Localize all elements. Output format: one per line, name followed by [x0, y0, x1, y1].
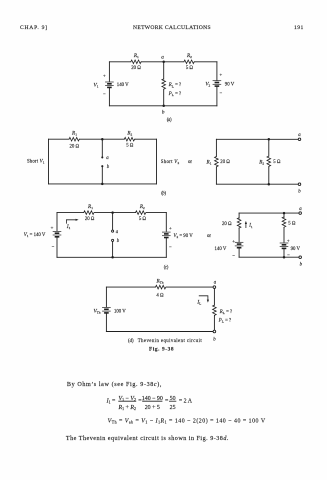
- wire: (c-right) right branch top: [283, 213, 285, 217]
- svg-text:a: a: [298, 133, 301, 138]
- wire: (b) bottom wire: [49, 183, 157, 185]
- resistor RTh (d) 4 ohm: [156, 285, 167, 289]
- wire: (a) left edge lower: [108, 88, 110, 106]
- svg-text:5 Ω: 5 Ω: [288, 222, 296, 227]
- svg-text:RL = ?: RL = ?: [168, 83, 181, 88]
- svg-text:+: +: [287, 240, 290, 245]
- svg-text:or: or: [207, 234, 211, 239]
- svg-text:+: +: [169, 227, 172, 232]
- wire: (d) left edge upper: [105, 287, 107, 307]
- wire: (c-right) bottom wire: [239, 256, 299, 258]
- wire: (c-right) left branch top: [238, 213, 240, 218]
- wire: (b) top segment 2: [80, 138, 124, 140]
- current arrow I1 (c): [66, 220, 76, 224]
- wire: (a) middle branch lower: [163, 89, 165, 105]
- svg-text:Short V1: Short V1: [27, 160, 45, 165]
- svg-text:+: +: [220, 73, 223, 78]
- resistor R2 (b-right) 5 ohm vertical: [267, 156, 271, 167]
- wire: (a) top-right segment: [195, 61, 217, 63]
- svg-text:20 + 5: 20 + 5: [145, 405, 160, 411]
- wire: (d) top segment 1: [106, 286, 155, 288]
- svg-text:−: −: [287, 254, 290, 259]
- wire: (c) right edge lower: [165, 238, 167, 257]
- wire: (c-right) right branch bottom: [283, 249, 285, 257]
- battery 90 V (c-right): [280, 243, 289, 248]
- svg-text:b: b: [117, 239, 120, 244]
- wire: (d) right edge lower: [213, 316, 215, 330]
- svg-text:100 V: 100 V: [114, 310, 126, 315]
- svg-text:R1 + R2: R1 + R2: [117, 405, 135, 411]
- svg-text:a: a: [214, 281, 217, 286]
- wire: (b-right) left edge lower: [215, 168, 217, 185]
- wire: (b) right edge (shorted V2): [156, 139, 158, 184]
- svg-text:Thevenin equivalent circuit: Thevenin equivalent circuit: [138, 339, 203, 344]
- svg-text:a: a: [106, 156, 109, 161]
- node b open circle (d): [213, 330, 216, 333]
- svg-text:I1: I1: [248, 224, 253, 229]
- terminal a open circle (c): [112, 230, 114, 232]
- wire: (c) bottom wire: [57, 256, 166, 258]
- resistor R1 (a) 20 ohm: [131, 60, 142, 64]
- svg-text:I1 =: I1 =: [106, 398, 116, 404]
- wire: (a) top-middle segment: [142, 61, 184, 63]
- resistor RL (d) load vertical: [213, 305, 217, 316]
- svg-text:R2: R2: [258, 159, 264, 165]
- wire: (b) middle stub upper: [101, 139, 103, 157]
- resistor R1 (b-right) 20 ohm vertical: [215, 157, 219, 168]
- wire: (c-right) right branch middle: [283, 227, 285, 242]
- wire: (a) top-left segment: [109, 61, 130, 63]
- wire: (c-right) left branch middle: [238, 228, 240, 241]
- svg-text:V1: V1: [94, 82, 99, 88]
- svg-text:R1: R1: [206, 159, 212, 165]
- svg-text:VTh = Vab = V1 − I1R1 = 140 −: VTh = Vab = V1 − I1R1 = 140 − 2(20) = 14…: [108, 417, 266, 424]
- wire: (c-right) top wire: [239, 212, 299, 214]
- wire: (c) right edge upper: [165, 213, 167, 232]
- wire: (a) left edge upper: [108, 62, 110, 82]
- wire: (b-right) top wire: [216, 138, 298, 140]
- svg-text:PL = ?: PL = ?: [218, 318, 231, 323]
- svg-text:20 Ω: 20 Ω: [222, 222, 232, 227]
- node b terminal dot (b): [101, 165, 103, 167]
- node a open circle (d): [213, 286, 216, 289]
- svg-text:VTh: VTh: [93, 309, 100, 315]
- wire: (d) bottom wire: [106, 331, 213, 333]
- resistor 20 ohm (c-right) vertical: [237, 218, 241, 229]
- terminal b open circle (c): [112, 239, 114, 241]
- svg-text:CHAP. 9]: CHAP. 9]: [20, 25, 48, 31]
- svg-text:V1 = 140 V: V1 = 140 V: [24, 233, 46, 238]
- wire: (b) top segment 3: [135, 138, 156, 140]
- svg-text:90 V: 90 V: [291, 247, 301, 252]
- wire: (c) middle stub lower: [112, 242, 114, 258]
- svg-text:R2: R2: [126, 130, 132, 136]
- junction dot top right branch (c-right): [283, 212, 286, 215]
- resistor R1 (b) 20 ohm: [69, 137, 80, 141]
- svg-text:20 Ω: 20 Ω: [85, 217, 95, 222]
- resistor R2 (c) 5 ohm: [136, 211, 147, 215]
- svg-text:20 Ω: 20 Ω: [70, 144, 80, 149]
- battery V2 (c) 90 V: [162, 232, 171, 237]
- wire: (b) middle stub lower: [101, 166, 103, 184]
- wire: (c) top segment 1: [57, 212, 84, 214]
- svg-text:R1: R1: [133, 53, 139, 59]
- wire: (b-right) middle branch upper: [268, 139, 270, 156]
- battery V2 (a) 90 V: [213, 81, 222, 86]
- svg-text:b: b: [107, 165, 110, 170]
- wire: (d) top segment 2: [167, 286, 214, 288]
- svg-text:R1: R1: [87, 204, 93, 210]
- junction dot top of stub (b): [101, 138, 104, 141]
- svg-text:R2: R2: [139, 204, 145, 210]
- terminal a open circle (c-right): [299, 212, 302, 215]
- svg-text:a: a: [116, 230, 119, 235]
- resistor 5 ohm (c-right) vertical: [282, 217, 286, 228]
- svg-text:b: b: [298, 189, 301, 194]
- battery VTh (d) 100 V: [102, 308, 111, 313]
- terminal b open circle (b-right): [298, 183, 301, 186]
- battery V1 (c) 140 V: [53, 231, 62, 236]
- equation 1: I1 = (V1-V2)/(R1+R2) = (140-90)/(20+5) = 50/25 = 2 A: [106, 396, 193, 411]
- svg-text:191: 191: [294, 25, 304, 31]
- svg-text:I1: I1: [66, 224, 71, 230]
- svg-text:R2: R2: [186, 53, 192, 59]
- svg-text:): ): [170, 118, 172, 123]
- svg-text:or: or: [188, 160, 192, 165]
- svg-text:140 V: 140 V: [215, 247, 227, 252]
- wire: (c) left edge upper: [56, 213, 58, 231]
- junction dot bottom right branch (c-right): [283, 256, 286, 259]
- svg-text:140 V: 140 V: [117, 83, 129, 88]
- svg-text:−: −: [232, 254, 235, 259]
- battery V1 (a) 140 V: [105, 82, 114, 87]
- svg-text:5 Ω: 5 Ω: [126, 144, 134, 149]
- wire: (b-right) middle branch lower: [268, 167, 270, 184]
- wire: (c) top segment 2: [95, 212, 136, 214]
- svg-text:= 2 A: = 2 A: [179, 398, 193, 404]
- svg-text:25: 25: [170, 405, 176, 411]
- svg-text:20 Ω: 20 Ω: [131, 66, 141, 71]
- svg-text:NETWORK CALCULATIONS: NETWORK CALCULATIONS: [133, 25, 211, 31]
- svg-text:): ): [167, 266, 169, 271]
- svg-text:b: b: [162, 109, 165, 115]
- wire: (c) left edge lower: [56, 238, 58, 258]
- wire: (c-right) left branch bottom: [238, 249, 240, 258]
- svg-text:a: a: [299, 207, 302, 212]
- svg-text:=: =: [165, 398, 169, 404]
- wire: (d) right edge upper: [213, 288, 215, 305]
- svg-text:): ): [164, 192, 166, 197]
- terminal b open circle (c-right): [299, 256, 302, 259]
- battery 140 V (c-right): [235, 242, 244, 247]
- current arrow I1 (c-right) pointing up: [245, 223, 247, 228]
- wire: (b-right) bottom wire: [216, 183, 298, 185]
- wire: (a) bottom wire: [109, 105, 216, 107]
- wire: (d) left edge lower: [105, 314, 107, 332]
- svg-text:−: −: [52, 245, 55, 250]
- svg-text:RTh: RTh: [155, 278, 163, 284]
- junction dot bottom of stub (c): [111, 256, 114, 259]
- svg-text:a: a: [161, 54, 164, 60]
- wire: (c) top segment 3: [147, 212, 167, 214]
- svg-text:The Thevenin equivalent circui: The Thevenin equivalent circuit is shown…: [66, 436, 229, 442]
- svg-text:Fig. 9-38: Fig. 9-38: [149, 346, 174, 352]
- node b (a) junction dot: [162, 105, 165, 108]
- wire: (b-right) left edge upper: [215, 139, 217, 156]
- svg-text:5 Ω: 5 Ω: [186, 66, 194, 71]
- svg-text:V2 = 90 V: V2 = 90 V: [174, 234, 194, 239]
- svg-text:V2: V2: [205, 81, 210, 87]
- junction dot top of R2 branch (b-right): [268, 138, 271, 141]
- resistor RL (a) load: [162, 79, 166, 90]
- svg-text:90 V: 90 V: [225, 82, 235, 87]
- svg-text:b: b: [300, 262, 303, 267]
- svg-text:20 Ω: 20 Ω: [220, 160, 230, 165]
- wire: (b) top segment 1: [49, 138, 70, 140]
- svg-text:b: b: [213, 337, 216, 342]
- svg-text:+: +: [232, 240, 235, 245]
- svg-text:IL: IL: [196, 299, 201, 305]
- svg-text:−: −: [220, 92, 223, 97]
- svg-text:5 Ω: 5 Ω: [273, 160, 281, 165]
- junction dot top of stub (c): [111, 211, 114, 214]
- terminal a open circle (b-right): [298, 138, 301, 141]
- svg-text:PL = ?: PL = ?: [168, 92, 181, 97]
- resistor R1 (c) 20 ohm: [84, 211, 95, 215]
- resistor R2 (a) 5 ohm: [184, 60, 195, 64]
- svg-text:4 Ω: 4 Ω: [156, 294, 164, 299]
- svg-text:RL = ?: RL = ?: [219, 310, 232, 315]
- svg-text:−: −: [169, 246, 172, 251]
- svg-text:−: −: [103, 92, 106, 97]
- node a (a) junction dot: [162, 61, 165, 64]
- junction dot bottom of stub (b): [101, 183, 104, 186]
- wire: (a) right edge upper: [216, 62, 218, 80]
- svg-text:R1: R1: [71, 130, 77, 136]
- wire: (b) left edge (shorted V1): [48, 139, 50, 184]
- svg-text:Short V2: Short V2: [161, 160, 180, 165]
- svg-text:(d): (d): [128, 339, 134, 344]
- wire: (c) middle stub upper: [112, 213, 114, 230]
- node a terminal dot (b): [101, 156, 103, 158]
- wire: (a) right edge lower: [216, 87, 218, 106]
- wire: (a) middle branch upper: [163, 62, 165, 79]
- current arrow IL (d) hook down: [199, 296, 208, 301]
- svg-text:By Ohm’s law (see Fig. 9-38c),: By Ohm’s law (see Fig. 9-38c),: [67, 381, 162, 388]
- svg-text:5 Ω: 5 Ω: [139, 217, 147, 222]
- junction dot bottom of R2 branch (b-right): [268, 183, 271, 186]
- svg-text:+: +: [103, 74, 106, 79]
- resistor R2 (b) 5 ohm: [124, 137, 135, 141]
- svg-text:+: +: [51, 226, 54, 231]
